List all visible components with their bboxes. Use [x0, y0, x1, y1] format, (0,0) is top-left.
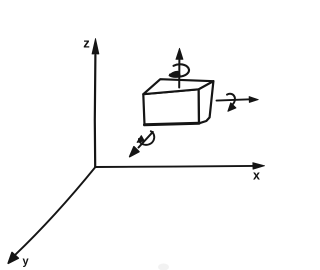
diagonal rotation loop arrowhead — [137, 136, 144, 143]
x axis arrowhead — [253, 163, 265, 170]
y axis — [15, 167, 96, 255]
z axis arrowhead — [92, 39, 99, 55]
right translation arrowhead — [249, 97, 258, 103]
right rotation arc arrowhead — [228, 103, 236, 111]
top translation arrow shaft — [178, 58, 180, 88]
svg-text:x: x — [253, 169, 260, 183]
diagonal translation arrowhead — [130, 147, 139, 157]
top rotation loop arrowhead — [169, 71, 180, 77]
box top face — [143, 79, 213, 94]
top rotation loop — [170, 64, 189, 76]
svg-text:z: z — [83, 36, 90, 51]
top translation arrowhead — [176, 48, 183, 59]
x axis — [95, 166, 254, 167]
box right face — [199, 81, 214, 123]
faint scan smudge — [158, 264, 169, 270]
svg-text:y: y — [23, 256, 30, 268]
right rotation arc — [227, 94, 235, 106]
diagonal rotation loop — [139, 131, 154, 145]
diagonal translation arrow shaft — [139, 132, 153, 148]
right translation arrow shaft — [217, 99, 251, 100]
box front bottom edge — [145, 123, 200, 125]
box front face — [143, 89, 199, 125]
y axis arrowhead — [8, 253, 18, 264]
z axis — [94, 55, 97, 167]
